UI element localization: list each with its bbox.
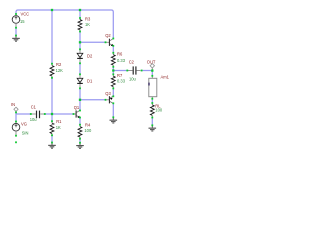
svg-text:Am1: Am1 [161, 75, 170, 80]
svg-text:R6: R6 [117, 52, 123, 57]
svg-text:R1: R1 [56, 119, 62, 124]
svg-text:R2: R2 [56, 62, 62, 67]
svg-text:Q1: Q1 [74, 105, 80, 110]
svg-text:VG: VG [21, 122, 27, 127]
svg-text:C1: C1 [31, 105, 37, 110]
svg-text:SIN: SIN [22, 130, 29, 135]
svg-text:0.33: 0.33 [117, 58, 126, 63]
svg-text:12K: 12K [56, 68, 64, 73]
svg-text:10u: 10u [30, 117, 37, 122]
svg-text:1K: 1K [85, 22, 90, 27]
svg-text:C2: C2 [129, 60, 135, 65]
svg-text:IN: IN [11, 102, 15, 107]
svg-text:Q3: Q3 [105, 91, 111, 96]
svg-text:VCC: VCC [21, 11, 30, 16]
svg-text:100: 100 [84, 128, 92, 133]
svg-text:1K: 1K [56, 125, 61, 130]
svg-text:Q2: Q2 [105, 33, 111, 38]
svg-text:100: 100 [155, 108, 163, 113]
svg-text:D2: D2 [87, 54, 93, 59]
svg-text:10u: 10u [129, 77, 136, 82]
svg-text:R4: R4 [85, 123, 91, 128]
svg-text:D1: D1 [87, 79, 93, 84]
svg-text:R3: R3 [85, 17, 91, 22]
svg-text:OUT: OUT [147, 59, 156, 64]
svg-text:R7: R7 [117, 73, 123, 78]
svg-text:15: 15 [20, 19, 25, 24]
svg-text:0.33: 0.33 [117, 79, 126, 84]
